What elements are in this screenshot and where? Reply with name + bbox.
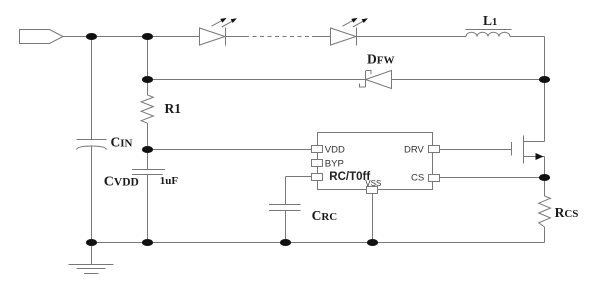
svg-text:R1: R1 <box>165 101 182 116</box>
svg-text:CS: CS <box>411 172 424 183</box>
svg-text:CIN: CIN <box>111 134 133 149</box>
svg-text:RCS: RCS <box>555 205 579 220</box>
svg-text:VSS: VSS <box>365 179 381 188</box>
svg-text:1uF: 1uF <box>160 175 179 187</box>
svg-text:DRV: DRV <box>404 144 425 155</box>
svg-text:CRC: CRC <box>312 208 338 223</box>
svg-text:RC/T0ff: RC/T0ff <box>329 171 370 183</box>
svg-text:VDD: VDD <box>325 144 345 155</box>
svg-text:CVDD: CVDD <box>104 174 139 189</box>
svg-text:BYP: BYP <box>325 158 344 169</box>
svg-text:DFW: DFW <box>367 52 394 67</box>
